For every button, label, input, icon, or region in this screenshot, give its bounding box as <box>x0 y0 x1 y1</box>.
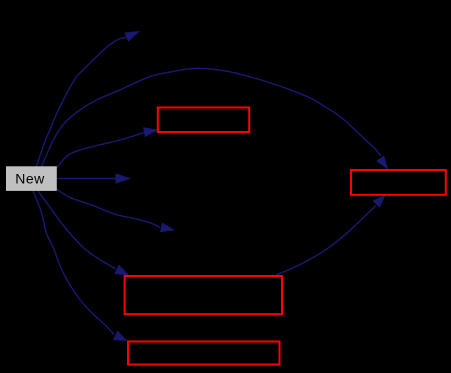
arrowhead edge C <box>143 127 159 137</box>
node box1 (red, label hidden) <box>158 108 249 133</box>
arrowhead edge G <box>113 331 128 342</box>
wire edge E: New to lower hidden node <box>56 189 160 228</box>
wire edge H: box3 to right box bottom <box>277 206 376 275</box>
node box2 right (red, label hidden) <box>351 170 446 195</box>
arrowhead edge D <box>116 173 132 184</box>
node box3 bottom middle (red, label hidden) <box>125 276 282 314</box>
node box4 bottom (red, label hidden) <box>128 342 280 365</box>
wire edge A: New to top hidden node <box>37 37 127 166</box>
wire edge B: New to right box top <box>42 68 381 166</box>
svg-text:New: New <box>15 171 45 187</box>
wire edge D: New to middle hidden node (horizontal) <box>56 178 116 180</box>
arrowhead edge E <box>160 222 175 232</box>
arrowhead edge F <box>114 265 129 276</box>
wire edge G: New to box4 <box>33 191 114 335</box>
arrowhead edge B <box>376 156 388 170</box>
wire edge C: New to box1 <box>56 132 144 168</box>
node New (gray) <box>6 166 57 191</box>
wire edge F: New to box3 <box>38 191 116 269</box>
arrowhead edge A <box>124 31 140 42</box>
arrowhead edge H <box>373 195 386 208</box>
